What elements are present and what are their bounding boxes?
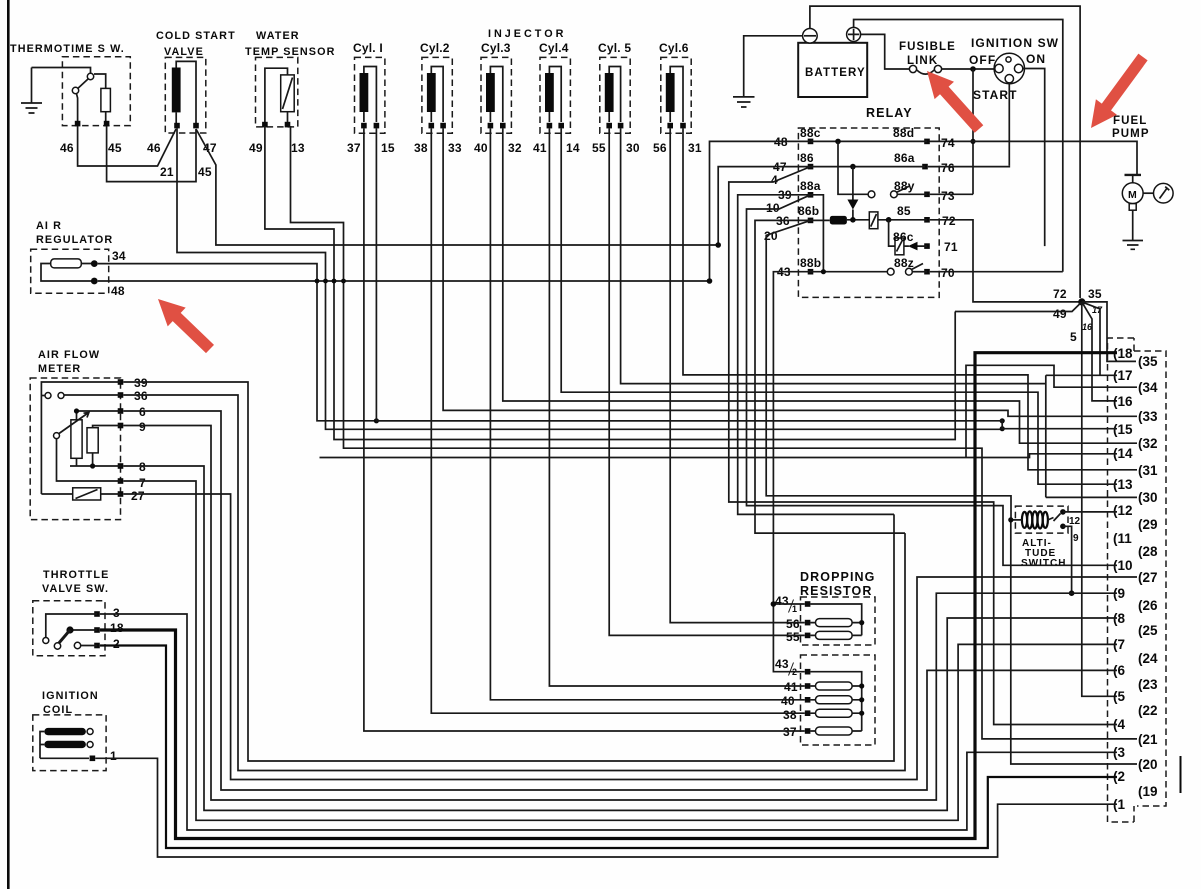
page left border: [7, 0, 10, 889]
svg-text:AIR FLOW: AIR FLOW: [38, 349, 100, 361]
dropping resistor pin 56: [805, 620, 811, 626]
coil winding 2: [44, 741, 86, 748]
svg-text:3: 3: [113, 606, 120, 620]
cold start solenoid bar: [172, 68, 181, 113]
relay pin 86b: [808, 218, 814, 224]
svg-text:IGNITION: IGNITION: [42, 690, 99, 702]
thermotime pin 45: [104, 121, 110, 127]
relay internal 88c row: [811, 140, 928, 142]
node fusible junction: [970, 66, 976, 72]
coil internal wires: [40, 732, 89, 759]
cold start valve box: [165, 57, 206, 133]
wire battery plus top feed: [854, 20, 1063, 272]
wire 18 throttle to ECU pin 18 (bold): [100, 353, 1117, 839]
svg-text:86c: 86c: [893, 230, 914, 244]
injector Cyl.6: [653, 41, 702, 155]
wire node to pin 35: [1082, 302, 1136, 362]
relay coil 85 (box with diagonal): [869, 212, 878, 229]
air flow meter box: [30, 378, 120, 520]
svg-text:THERMOTIME S W.: THERMOTIME S W.: [10, 43, 125, 55]
wire node diagonal to pin 16: [1082, 302, 1117, 401]
svg-text:74: 74: [941, 136, 955, 150]
svg-text:FUSIBLE: FUSIBLE: [899, 41, 956, 53]
fuel pump motor: [1122, 175, 1143, 241]
ECU pins right column: [1138, 354, 1158, 799]
wire air flow 9 to ECU pin 9: [123, 426, 1117, 801]
dropping resistor R38: [816, 709, 853, 717]
wire air flow 6 to ECU pin 6: [123, 411, 1117, 790]
svg-text:COLD START: COLD START: [156, 30, 236, 42]
svg-text:43: 43: [775, 657, 789, 671]
ignition coil box: [33, 715, 106, 771]
air flow pin 6: [118, 408, 124, 414]
throttle pin 3: [94, 611, 100, 617]
svg-text:12: 12: [1069, 516, 1081, 527]
svg-text:46: 46: [147, 141, 161, 155]
ECU connector inner dashed box: [1108, 338, 1135, 822]
svg-text:2: 2: [113, 637, 120, 651]
svg-text:(25: (25: [1138, 623, 1158, 638]
wire altitude top contact to pin 12: [1063, 511, 1117, 513]
svg-text:39: 39: [134, 376, 148, 390]
wire air flow 7 to ECU pin 7: [123, 481, 1117, 820]
air regulator box: [31, 249, 109, 293]
svg-text:27: 27: [131, 489, 145, 503]
svg-text:(33: (33: [1138, 409, 1158, 424]
injector Cyl.2: [414, 41, 462, 155]
svg-text:55: 55: [592, 141, 606, 155]
svg-text:43: 43: [775, 594, 789, 608]
svg-text:METER: METER: [38, 363, 81, 375]
wire air flow 36 to relay 36: [123, 395, 905, 771]
wire relay 48 external: [710, 141, 811, 281]
svg-text:(12: (12: [1113, 503, 1133, 518]
air flow pin 8: [118, 463, 124, 469]
air regulator heater resistor: [51, 259, 82, 268]
wire battery plus to fusible link: [861, 34, 910, 69]
wire 4 relay to ECU pin 4: [729, 167, 1117, 725]
coil winding 1: [44, 728, 86, 735]
wire injector 33 to ECU pin 33: [443, 128, 1137, 416]
wire node diagonal to pin 17: [1082, 302, 1100, 375]
wire injector 14 to ECU pin 14: [561, 128, 1117, 484]
battery plus terminal: [847, 27, 861, 41]
svg-text:38: 38: [783, 708, 797, 722]
relay pin 88c: [808, 139, 814, 145]
air flow wiper: [54, 433, 60, 439]
svg-text:9: 9: [1073, 533, 1079, 544]
air flow temp sensor resistor: [73, 488, 101, 500]
cold start pin 47: [193, 123, 199, 129]
ground (thermotime): [31, 68, 33, 104]
dropping resistor pin 43/2: [805, 669, 811, 675]
wire line 457 to ECU pin 14: [320, 454, 1118, 458]
wire fusible link to ignition sw: [942, 68, 994, 70]
svg-text:55: 55: [786, 630, 800, 644]
svg-text:10: 10: [766, 201, 780, 215]
dropping resistor box 2: [801, 655, 876, 745]
svg-text:VALVE SW.: VALVE SW.: [42, 583, 109, 595]
svg-text:88y: 88y: [894, 179, 915, 193]
relay box: [798, 128, 939, 297]
relay coil 86c (box with diagonal): [889, 220, 895, 246]
wire relay 47 external: [718, 167, 810, 245]
svg-text:(23: (23: [1138, 677, 1158, 692]
wire thermotime 46 to cold start 46: [78, 126, 176, 166]
svg-text:70: 70: [941, 266, 955, 280]
svg-text:6: 6: [139, 405, 146, 419]
svg-text:(21: (21: [1138, 732, 1158, 747]
dropping resistor pin 55: [805, 633, 811, 639]
air regulator internal wires: [41, 264, 94, 282]
air flow wiper to pin 7: [57, 439, 121, 481]
wire injector 56 to dropping resistor: [670, 128, 805, 622]
wire injector 31 to ECU pin 31: [683, 128, 1137, 469]
svg-text:SWITCH: SWITCH: [1021, 558, 1066, 569]
svg-text:START: START: [973, 88, 1018, 102]
air flow pin 39: [118, 379, 124, 385]
wire injector 15 to ECU pin 15: [376, 128, 1117, 428]
svg-text:WATER: WATER: [256, 30, 300, 42]
wire 73 from 88y to fusible junction: [930, 193, 973, 195]
wire 39 relay to air flow 39 riser: [738, 195, 894, 515]
air regulator pin 34: [91, 260, 98, 267]
node 74 junction: [970, 139, 975, 144]
page right border segment: [1180, 756, 1182, 793]
svg-text:Cyl.6: Cyl.6: [659, 41, 689, 55]
wire throttle 3 to ECU pin 3: [100, 614, 1117, 830]
wire battery minus top feed: [810, 6, 1080, 298]
svg-text:REGULATOR: REGULATOR: [36, 234, 113, 246]
wire 70 from 88z to battery plus line: [930, 271, 1063, 273]
thermotime switch box: [62, 57, 130, 126]
svg-text:OFF: OFF: [969, 53, 996, 67]
svg-text:5: 5: [1070, 330, 1077, 344]
wire 49 water temp to ground node: [265, 126, 955, 440]
wire ignition ON to relay 71: [1023, 69, 1045, 247]
svg-text:15: 15: [381, 141, 395, 155]
svg-text:Cyl.4: Cyl.4: [539, 41, 569, 55]
fusible link: [899, 41, 956, 74]
wire 72 from 85 down to ground node: [930, 220, 1080, 302]
svg-text:56: 56: [786, 617, 800, 631]
svg-text:1: 1: [792, 604, 797, 614]
svg-text:41: 41: [784, 680, 798, 694]
wire ignition OFF junction down to 74/73: [972, 69, 974, 194]
cold start pin 46: [174, 123, 180, 129]
relay pin 86: [808, 164, 814, 170]
water temp internal wires: [265, 68, 288, 122]
svg-text:1: 1: [110, 749, 117, 763]
svg-text:30: 30: [626, 141, 640, 155]
svg-text:86a: 86a: [894, 151, 915, 165]
ground (battery left): [744, 36, 803, 97]
relay pin 85: [924, 217, 930, 223]
svg-text:86: 86: [800, 151, 814, 165]
wire 76 from 86a to ignition START: [928, 165, 1010, 168]
svg-text:IGNITION SW: IGNITION SW: [971, 36, 1059, 50]
cold start internal loop: [176, 61, 196, 124]
wire 2 throttle to ECU pin 2: [100, 646, 1117, 849]
svg-text:(27: (27: [1138, 570, 1158, 585]
air regulator pin 48: [91, 278, 98, 285]
wire node diagonal 49: [955, 302, 1082, 312]
wire 13 water temp to ECU pin 13: [291, 126, 1138, 739]
svg-text:38: 38: [414, 141, 428, 155]
svg-text:18: 18: [110, 621, 124, 635]
svg-text:49: 49: [1053, 307, 1067, 321]
battery minus terminal: [803, 29, 818, 44]
svg-text:Cyl. I: Cyl. I: [353, 41, 383, 55]
svg-text:85: 85: [897, 204, 911, 218]
dropping resistor R55: [816, 631, 853, 639]
svg-text:48: 48: [111, 284, 125, 298]
wire ignition START to relay 76: [1008, 83, 1010, 166]
air flow pin 27: [118, 491, 124, 497]
svg-text:DROPPING: DROPPING: [800, 570, 875, 584]
air flow potentiometer track 2: [87, 428, 98, 453]
svg-text:Cyl. 5: Cyl. 5: [598, 41, 631, 55]
relay pin 88a: [808, 192, 814, 198]
air flow pot bottom joins pin 8: [70, 453, 121, 466]
ignition switch: [969, 36, 1059, 102]
svg-text:88b: 88b: [800, 256, 821, 270]
svg-text:34: 34: [112, 249, 126, 263]
dropping resistor R37: [816, 727, 853, 735]
coil pin 1: [90, 756, 96, 762]
svg-text:40: 40: [781, 694, 795, 708]
wire ECU pin 20 riser: [1011, 520, 1137, 764]
dropping resistor pin 41: [805, 683, 811, 689]
svg-text:86b: 86b: [798, 204, 819, 218]
svg-text:(26: (26: [1138, 598, 1158, 613]
water temp sensor box: [256, 57, 298, 127]
svg-text:THROTTLE: THROTTLE: [43, 569, 109, 581]
svg-text:(34: (34: [1138, 380, 1158, 395]
svg-text:32: 32: [508, 141, 522, 155]
relay internal coil 86b (black): [811, 219, 830, 221]
svg-text:76: 76: [941, 161, 955, 175]
relay internal 88c branch to 88y switch: [838, 141, 868, 194]
air flow potentiometer track 1: [71, 420, 82, 459]
air flow pot top wires: [77, 411, 121, 420]
water temp thermistor: [281, 75, 295, 112]
relay pin 88d: [924, 139, 930, 145]
svg-text:72: 72: [942, 214, 956, 228]
svg-text:Cyl.2: Cyl.2: [420, 41, 450, 55]
wire injector 37 to dropping resistor: [364, 128, 805, 731]
wire 74 feed to fuel pump: [927, 141, 1137, 175]
wire thermotime 45 to cold start 47: [107, 126, 196, 182]
red arrow (air regulator): [158, 299, 214, 353]
thermotime switch contacts: [32, 68, 91, 74]
wire 10 relay to ECU pin 10: [747, 195, 1118, 566]
svg-text:(28: (28: [1138, 544, 1158, 559]
svg-text:AI R: AI R: [36, 220, 62, 232]
svg-text:45: 45: [108, 141, 122, 155]
wire 45 cold start 47 to relay 47 net: [196, 129, 718, 245]
svg-text:72: 72: [1053, 287, 1067, 301]
wire injector 40 to dropping resistor: [490, 128, 804, 699]
svg-text:TEMP SENSOR: TEMP SENSOR: [245, 46, 336, 58]
svg-text:35: 35: [1088, 287, 1102, 301]
svg-text:37: 37: [783, 725, 797, 739]
dropping resistor pin 43/1: [805, 601, 811, 607]
svg-text:73: 73: [941, 189, 955, 203]
wire air flow 27 to ECU pin 27: [123, 494, 1137, 780]
svg-text:ON: ON: [1026, 52, 1046, 66]
air flow switch: [41, 382, 120, 494]
fuel pump gauge: [1143, 183, 1173, 203]
water temp pin 49: [262, 122, 268, 128]
svg-text:46: 46: [60, 141, 74, 155]
relay internal 88b row with 88z switch: [811, 271, 888, 273]
relay pin 88y: [924, 192, 930, 198]
svg-text:88a: 88a: [800, 179, 821, 193]
wire 21 cold start 46 to ECU pin 21: [177, 128, 1002, 429]
altitude switch contacts: [1060, 509, 1066, 515]
svg-text:(30: (30: [1138, 490, 1158, 505]
dropping resistor box2 internal wires: [810, 672, 861, 731]
svg-text:RESISTOR: RESISTOR: [800, 584, 872, 598]
svg-text:45: 45: [198, 165, 212, 179]
wire 36 relay to air flow 36: [755, 220, 905, 533]
dropping resistor pin 38: [805, 710, 811, 716]
svg-text:40: 40: [474, 141, 488, 155]
svg-text:RELAY: RELAY: [866, 106, 913, 120]
altitude switch coil: [1022, 511, 1048, 528]
svg-text:FUEL: FUEL: [1113, 115, 1147, 127]
dropping resistor R41: [816, 682, 853, 690]
svg-text:36: 36: [134, 389, 148, 403]
wire node ground down to pin 5: [1082, 302, 1117, 696]
svg-text:BATTERY: BATTERY: [805, 67, 866, 79]
ground (fuel pump): [1123, 241, 1144, 250]
svg-text:(20: (20: [1138, 757, 1158, 772]
injector Cyl.3: [474, 41, 522, 155]
throttle valve switch box: [33, 601, 105, 656]
svg-text:14: 14: [566, 141, 580, 155]
dropping resistor R56: [816, 619, 853, 627]
air flow pin 9: [118, 423, 124, 429]
wire 34 air regulator to ECU pin 34: [98, 264, 1137, 458]
svg-text:88c: 88c: [800, 126, 821, 140]
wire air flow 39 to relay 39: [123, 382, 894, 761]
svg-text:M: M: [1128, 189, 1138, 201]
relay internal 86 row: [811, 166, 926, 168]
relay 88y switch: [868, 191, 875, 198]
svg-text:56: 56: [653, 141, 667, 155]
svg-text:Cyl.3: Cyl.3: [481, 41, 511, 55]
svg-text:88d: 88d: [893, 126, 914, 140]
thermotime resistor: [101, 88, 111, 111]
thermotime pin 46: [75, 121, 81, 127]
ground node 72/35: [1078, 298, 1085, 305]
svg-text:8: 8: [139, 460, 146, 474]
battery: [798, 27, 867, 97]
svg-text:71: 71: [944, 240, 958, 254]
dropping resistor R40: [816, 696, 853, 704]
throttle switch internals: [46, 614, 97, 638]
svg-text:INJECTOR: INJECTOR: [488, 28, 566, 40]
ECU connector outer dashed box: [1134, 338, 1166, 822]
svg-text:(11: (11: [1113, 531, 1132, 546]
air flow pin 36: [118, 392, 124, 398]
water temp pin 13: [285, 122, 291, 128]
wire 1 ignition coil to ECU pin 1: [95, 758, 1117, 857]
dropping resistor box 1: [801, 597, 876, 645]
dropping resistor pin 40: [805, 697, 811, 703]
svg-text:(24: (24: [1138, 651, 1158, 666]
wire 48 air regulator to relay 48 net: [98, 280, 710, 282]
wire injector 32 to ECU pin 32: [503, 128, 1137, 443]
air flow pin 7: [118, 478, 124, 484]
svg-text:49: 49: [249, 141, 263, 155]
relay pin 88z: [924, 269, 930, 275]
svg-text:41: 41: [533, 141, 547, 155]
injector Cyl.1: [347, 41, 395, 155]
svg-text:(31: (31: [1138, 463, 1158, 478]
svg-text:(29: (29: [1138, 517, 1158, 532]
relay 86c arrowhead: [908, 242, 918, 251]
dropping resistor pin 37: [805, 728, 811, 734]
wire 20 relay to altitude coil: [766, 220, 1022, 520]
svg-text:88z: 88z: [894, 256, 914, 270]
relay pin 86a: [922, 164, 928, 170]
svg-text:(32: (32: [1138, 436, 1158, 451]
relay internal 88a to 88b link: [811, 195, 824, 272]
wire injector 41 to dropping resistor: [549, 128, 804, 686]
svg-text:37: 37: [347, 141, 361, 155]
injector Cyl.5: [592, 41, 640, 155]
svg-text:(35: (35: [1138, 354, 1158, 369]
svg-text:VALVE: VALVE: [164, 46, 204, 58]
relay diode: [852, 167, 854, 200]
wire injector 38 to dropping resistor: [431, 128, 805, 713]
svg-text:PUMP: PUMP: [1112, 128, 1150, 140]
throttle pin 2: [94, 643, 100, 649]
svg-text:9: 9: [139, 420, 146, 434]
altitude switch box: [1015, 506, 1068, 533]
svg-text:21: 21: [160, 165, 174, 179]
dropping resistor box1 internal wires: [810, 604, 861, 635]
wire injector 55 to dropping resistor: [609, 128, 805, 635]
svg-text:(5: (5: [1113, 689, 1125, 704]
throttle pin 18: [94, 627, 100, 633]
svg-text:(19: (19: [1138, 784, 1158, 799]
svg-text:33: 33: [448, 141, 462, 155]
wire altitude bottom contact down to pin 9 row: [1063, 526, 1072, 593]
relay pin 86c: [924, 243, 930, 249]
wire injector 30 to ECU pins 17/30: [621, 128, 1137, 497]
svg-text:(16: (16: [1113, 394, 1133, 409]
relay pin 88b: [808, 269, 814, 275]
svg-text:13: 13: [291, 141, 305, 155]
wire 43 relay to dropping resistors: [773, 272, 810, 672]
red arrow (fuel pump): [1091, 54, 1148, 128]
ECU pins left column: [1113, 346, 1133, 812]
svg-text:(22: (22: [1138, 703, 1158, 718]
svg-text:31: 31: [688, 141, 702, 155]
red arrow (fusible link): [927, 71, 983, 133]
wire air flow 8 to ECU pin 8: [123, 466, 1117, 810]
injector Cyl.4: [533, 41, 580, 155]
svg-text:7: 7: [139, 476, 146, 490]
